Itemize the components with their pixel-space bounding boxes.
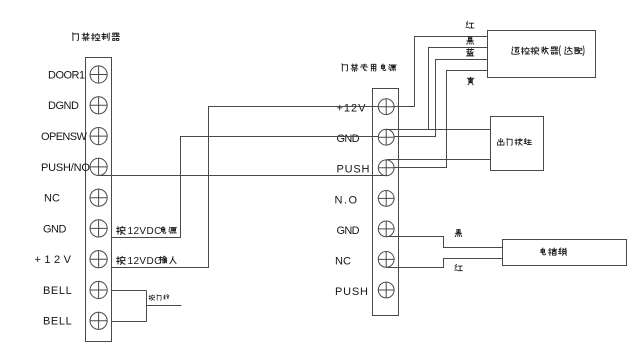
svg-text:PUSH/NO: PUSH/NO bbox=[41, 162, 90, 174]
terminal J2-5 GND bbox=[378, 221, 394, 237]
svg-text:+12V: +12V bbox=[35, 254, 75, 266]
wire bell vertical bbox=[146, 291, 148, 322]
wire J2 PUSH top tangent to exit button bbox=[387, 159, 491, 161]
exit button box 出门按钮 bbox=[491, 117, 544, 171]
terminal J1-6 GND bbox=[90, 220, 107, 237]
wire J2 GND top tangent to exit button bbox=[387, 129, 491, 131]
label 红 bbox=[466, 22, 474, 28]
label 蓝 bbox=[466, 49, 473, 56]
wire +12V loop to J2 +12V bbox=[112, 107, 379, 268]
terminal J1-8 BELL bbox=[90, 281, 107, 298]
label 出门按钮 bbox=[498, 138, 504, 145]
terminal J2-1 +12V bbox=[378, 99, 394, 115]
svg-text:GND: GND bbox=[337, 225, 360, 237]
svg-text:12VDC: 12VDC bbox=[128, 226, 162, 237]
remote receiver box 遥控接收器(选配) bbox=[488, 31, 596, 78]
terminal J1-4 PUSH/NO bbox=[90, 158, 107, 175]
label 接门铃 bbox=[149, 295, 155, 301]
label 遥控接收器(选配) bbox=[512, 47, 520, 55]
wire BELL2 stub bbox=[112, 321, 147, 323]
terminal J1-1 DOOR1 bbox=[90, 66, 107, 83]
wire yellow: J2 PUSH to receiver pin4 bbox=[395, 71, 488, 168]
label 接12VDC输入 bbox=[117, 256, 126, 264]
svg-text:GND: GND bbox=[43, 223, 67, 235]
wire blue: J2 GND to receiver pin3 bbox=[395, 60, 488, 137]
terminal block J1 (door controller) bbox=[86, 58, 112, 342]
svg-text:NC: NC bbox=[335, 255, 351, 267]
label 黑 bbox=[467, 37, 474, 44]
terminal J2-3 PUSH bbox=[378, 160, 394, 176]
wire red: J2 NC to lock bbox=[387, 259, 503, 268]
label 黄 bbox=[467, 77, 474, 85]
label 电插锁 bbox=[541, 248, 546, 255]
svg-text:GND: GND bbox=[337, 133, 360, 145]
svg-text:DGND: DGND bbox=[48, 100, 79, 112]
svg-text:OPENSW: OPENSW bbox=[41, 131, 88, 143]
wire black: J2 GND top to receiver pin2 bbox=[429, 48, 488, 130]
terminal block J2 (access power supply) bbox=[373, 89, 399, 316]
svg-text:DOOR1: DOOR1 bbox=[48, 69, 85, 81]
terminal J1-2 DGND bbox=[90, 97, 107, 114]
svg-text:N.O: N.O bbox=[335, 194, 359, 206]
label: title 门禁控制器 bbox=[73, 33, 79, 41]
label 接12VDC电源 bbox=[117, 226, 126, 234]
wire bell lead bbox=[147, 305, 182, 307]
wire red: J2 +12V to receiver pin1 bbox=[395, 37, 488, 107]
terminal J1-9 BELL bbox=[90, 312, 107, 329]
svg-text:+12V: +12V bbox=[337, 103, 367, 115]
wire GND loop to J2 GND bbox=[112, 137, 379, 238]
svg-text:BELL: BELL bbox=[43, 316, 72, 328]
svg-text:12VDC: 12VDC bbox=[128, 256, 162, 267]
label 黑 (lock) bbox=[455, 230, 461, 237]
terminal J1-3 OPENSW bbox=[90, 128, 107, 145]
wire BELL1 stub bbox=[112, 290, 147, 292]
wire PUSH/NO to J2 PUSH (bottom tangent) bbox=[99, 175, 387, 177]
svg-text:PUSH: PUSH bbox=[337, 164, 371, 176]
svg-text:NC: NC bbox=[44, 193, 60, 205]
terminal J2-2 GND bbox=[378, 129, 394, 145]
electric lock box 电插锁 bbox=[503, 240, 627, 266]
svg-text:BELL: BELL bbox=[43, 285, 72, 297]
wire black: J2 GND2 to lock bbox=[387, 237, 503, 248]
terminal J2-4 N.O bbox=[378, 191, 394, 207]
label: title 门禁专用电源 bbox=[342, 64, 348, 71]
label 红 (lock) bbox=[455, 264, 463, 270]
terminal J1-5 NC bbox=[90, 189, 107, 206]
terminal J2-6 NC bbox=[378, 252, 394, 268]
terminal J1-7 +12V bbox=[90, 251, 107, 268]
terminal J2-7 PUSH bbox=[378, 282, 394, 298]
svg-text:PUSH: PUSH bbox=[335, 286, 369, 298]
